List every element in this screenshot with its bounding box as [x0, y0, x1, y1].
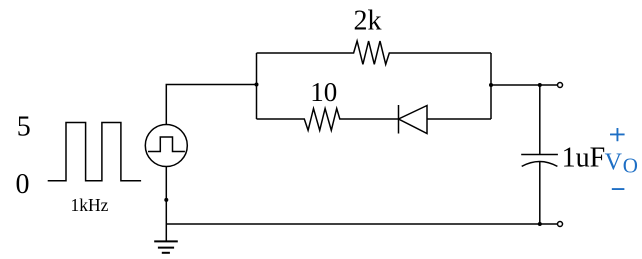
svg-text:5: 5	[17, 112, 31, 143]
svg-text:0: 0	[16, 169, 30, 200]
svg-text:O: O	[623, 154, 638, 178]
svg-text:1uF: 1uF	[562, 142, 606, 173]
svg-text:2k: 2k	[354, 6, 382, 37]
svg-text:10: 10	[310, 77, 337, 107]
svg-text:V: V	[605, 150, 623, 176]
svg-text:1kHz: 1kHz	[71, 195, 109, 215]
